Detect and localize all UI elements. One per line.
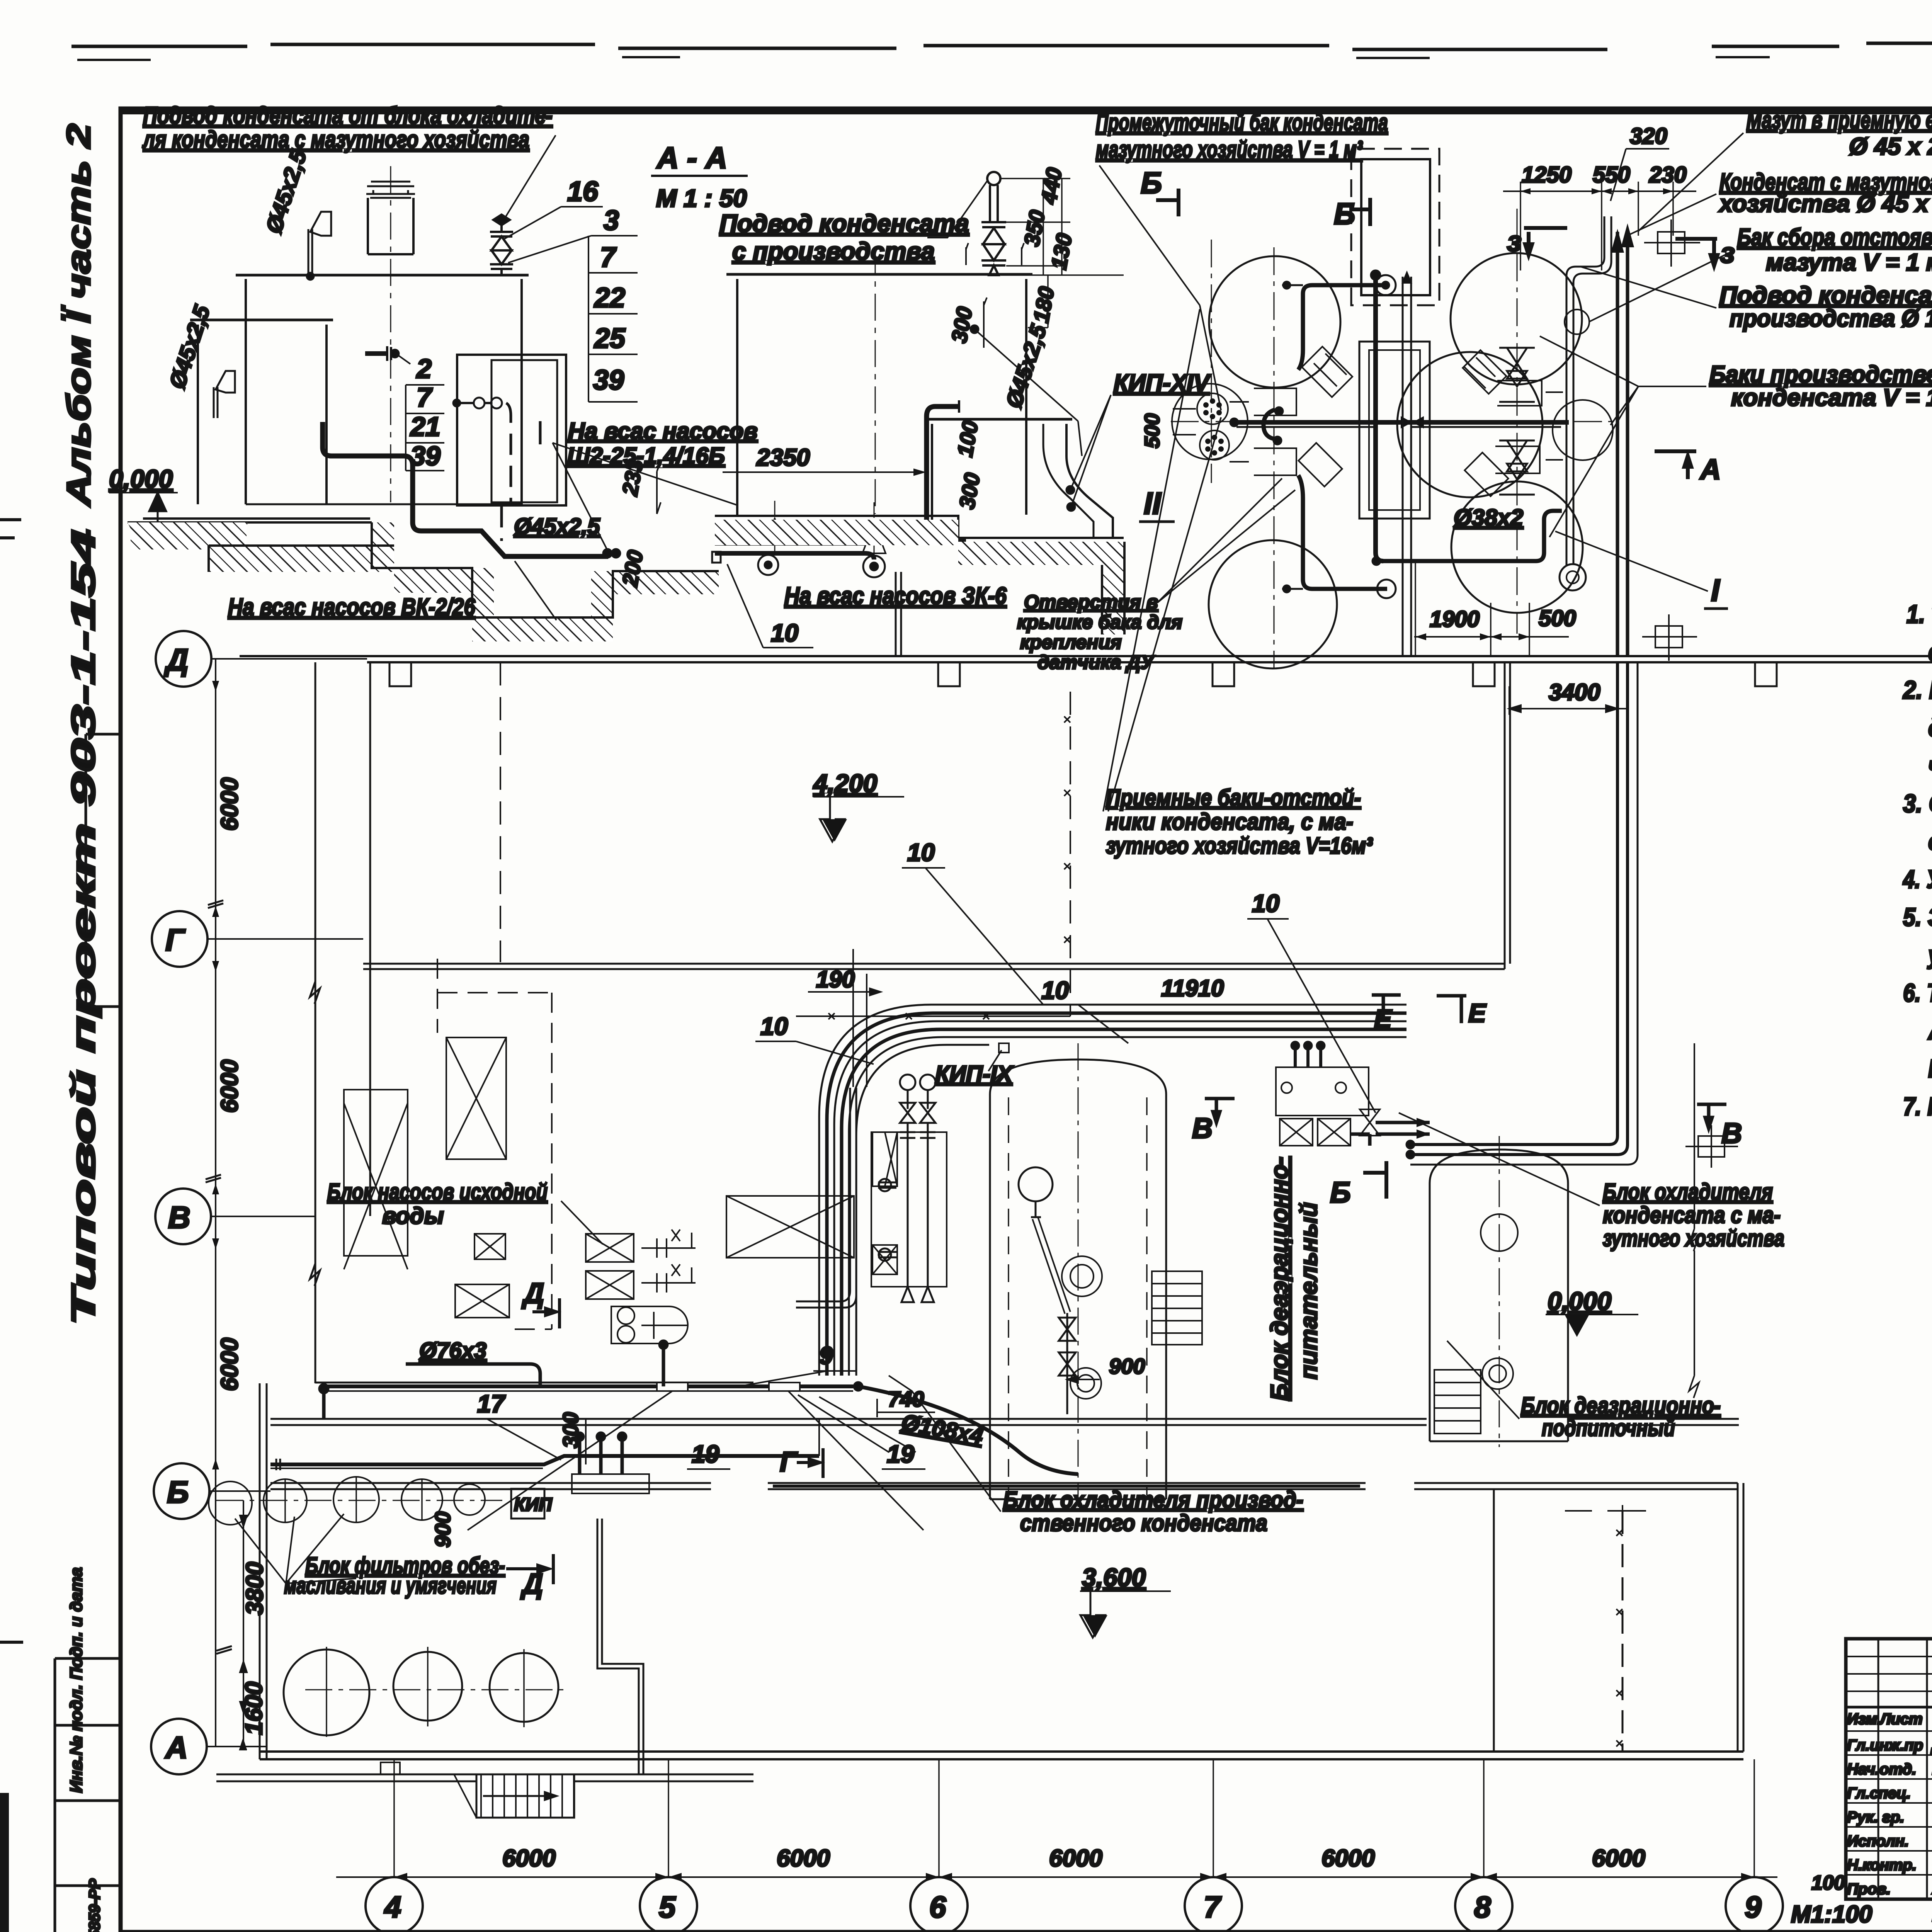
svg-text:Лист: Лист bbox=[1879, 1711, 1923, 1728]
svg-text:6000: 6000 bbox=[777, 1845, 830, 1872]
thick pipes around pump block bbox=[406, 1364, 540, 1386]
svg-text:ІІ: ІІ bbox=[1144, 486, 1162, 520]
svg-text:согласно ГОСТ 16037-70.: согласно ГОСТ 16037-70. bbox=[1928, 827, 1932, 855]
svg-text:масливания и умягчения: масливания и умягчения bbox=[284, 1573, 497, 1599]
trench pipes left of tank bbox=[715, 526, 893, 545]
svg-text:должно производиться пробн: должно производиться пробным давлением р… bbox=[1928, 713, 1932, 742]
svg-text:Д: Д bbox=[164, 643, 189, 677]
подпиточный deaerator tank bbox=[1430, 1150, 1568, 1183]
svg-text:10: 10 bbox=[1252, 889, 1279, 917]
svg-text:10: 10 bbox=[1041, 976, 1069, 1004]
svg-text:питательный: питательный bbox=[1296, 1202, 1322, 1379]
valves on vertical run right group bbox=[1499, 348, 1535, 495]
svg-text:6000: 6000 bbox=[1321, 1845, 1375, 1872]
svg-text:0,000: 0,000 bbox=[1548, 1287, 1611, 1315]
svg-text:Исполн.: Исполн. bbox=[1847, 1833, 1909, 1850]
svg-text:чего давления.: чего давления. bbox=[1928, 751, 1932, 780]
svg-text:мазутного хозяйства V = 1 м³: мазутного хозяйства V = 1 м³ bbox=[1096, 136, 1363, 163]
svg-text:550: 550 bbox=[1593, 162, 1630, 187]
instrument rack bbox=[871, 1132, 947, 1287]
svg-text:0,000: 0,000 bbox=[109, 464, 173, 493]
small left tank bbox=[190, 319, 333, 321]
big tank circles left group bbox=[1209, 256, 1340, 388]
dim lines right of valve bbox=[1001, 179, 1124, 275]
riser bundle to Б pipe bbox=[580, 1434, 622, 1474]
deaerator feed tank bbox=[990, 1060, 1166, 1094]
svg-text:5. Закладные конструкции д: 5. Закладные конструкции для установки п… bbox=[1903, 903, 1932, 931]
big tank A-A bbox=[236, 274, 529, 277]
svg-text:7: 7 bbox=[600, 242, 617, 273]
svg-text:1. Трубопроводы конденсата и: 1. Трубопроводы конденсата изготовить и … bbox=[1906, 600, 1932, 628]
svg-text:7: 7 bbox=[1204, 1890, 1222, 1924]
svg-text:3800: 3800 bbox=[241, 1562, 268, 1615]
svg-text:15859-РР: 15859-РР bbox=[86, 1879, 103, 1932]
svg-text:з: з bbox=[1507, 225, 1522, 257]
svg-text:Альбом Ї часть 2: Альбом Ї часть 2 bbox=[60, 124, 97, 507]
svg-text:4: 4 bbox=[384, 1890, 401, 1924]
svg-text:Промежуточный бак конденсата: Промежуточный бак конденсата bbox=[1096, 109, 1388, 136]
grid bubble В bbox=[155, 1189, 211, 1244]
svg-text:І: І bbox=[1711, 573, 1720, 607]
left margin stamp boxes bbox=[55, 1658, 121, 1932]
svg-text:Материал поз. 5; 35; 36 ; 37: Материал поз. 5; 35; 36 ; 37; 38 учтен д… bbox=[1928, 1054, 1932, 1083]
svg-text:В: В bbox=[168, 1200, 190, 1235]
pipe down from pump corner bbox=[662, 1341, 665, 1386]
svg-text:Блок насосов исходной: Блок насосов исходной bbox=[327, 1179, 548, 1205]
svg-text:4. Уклон трубопроводов выпол: 4. Уклон трубопроводов выполнить согласн… bbox=[1902, 865, 1932, 893]
svg-text:Е: Е bbox=[1468, 998, 1487, 1028]
Б row thick pipe 17 bbox=[270, 1456, 819, 1464]
svg-text:3: 3 bbox=[604, 205, 619, 236]
svg-text:Ø38х2: Ø38х2 bbox=[1454, 505, 1523, 531]
ground line and hatched ground bbox=[128, 519, 372, 522]
equipment X-boxes upper area bbox=[344, 1037, 854, 1318]
svg-text:39: 39 bbox=[593, 365, 624, 396]
S-bend pipe to right (Ø133) bbox=[1566, 216, 1604, 448]
grid bubble Д bbox=[156, 631, 211, 687]
svg-text:Нач.отд.: Нач.отд. bbox=[1847, 1761, 1916, 1778]
dashed pipe with x marks right bbox=[1622, 1511, 1624, 1752]
valve on middle tank roof bbox=[966, 172, 1024, 275]
svg-text:6000: 6000 bbox=[1592, 1845, 1645, 1872]
svg-text:А: А bbox=[1699, 453, 1721, 485]
bottom building walls bbox=[270, 1483, 1738, 1489]
SEC:TOPLEFT bbox=[109, 102, 758, 641]
SEC:BOTTOM bbox=[336, 1759, 1872, 1932]
svg-text:190: 190 bbox=[816, 966, 855, 992]
Ø108x4 curve to deaerator bbox=[854, 1382, 862, 1391]
vertical dim line between bubbles bbox=[215, 659, 216, 1747]
svg-text:6000: 6000 bbox=[502, 1845, 556, 1872]
diagonal damper squares bbox=[1298, 347, 1508, 496]
SEC:TITLEBLOCK bbox=[1811, 1639, 1932, 1928]
svg-text:ля конденсата с мазутного х: ля конденсата с мазутного хозяйства bbox=[142, 126, 529, 153]
svg-text:10: 10 bbox=[760, 1012, 788, 1040]
floor + hatch under middle tank bbox=[715, 516, 1124, 538]
filter circles row bbox=[216, 1500, 502, 1501]
unions on pipe 9 bbox=[657, 1383, 800, 1391]
svg-text:Блок деаэрационно-: Блок деаэрационно- bbox=[1266, 1156, 1293, 1401]
svg-text:крепления: крепления bbox=[1020, 631, 1122, 653]
middle big tank bbox=[726, 273, 1032, 276]
risers with direction flags bbox=[308, 229, 312, 275]
leader from label to valve 16 bbox=[502, 135, 556, 222]
svg-text:4,200: 4,200 bbox=[813, 769, 877, 798]
svg-text:производства Ø 133х4: производства Ø 133х4 bbox=[1730, 305, 1932, 332]
svg-text:Н.контр.: Н.контр. bbox=[1847, 1857, 1917, 1874]
filter room right wall with step bbox=[597, 1519, 643, 1774]
svg-text:Блок охладителя: Блок охладителя bbox=[1603, 1179, 1773, 1205]
big pipe loop right bbox=[1410, 663, 1617, 1145]
svg-text:5: 5 bbox=[659, 1890, 676, 1924]
left paper edge marks bbox=[2, 1793, 5, 1932]
tank box plan (dashed + solid) bbox=[1351, 149, 1439, 305]
svg-text:100: 100 bbox=[1811, 1872, 1845, 1894]
grid bubble Б bbox=[154, 1463, 209, 1519]
svg-text:Гл.спец.: Гл.спец. bbox=[1847, 1785, 1911, 1802]
pump block насосы исходной воды bbox=[586, 1230, 696, 1344]
svg-text:зутного хозяйства V=16м³: зутного хозяйства V=16м³ bbox=[1106, 833, 1373, 859]
dim line with arrows bbox=[336, 1876, 1777, 1878]
svg-text:10: 10 bbox=[907, 838, 935, 866]
thick main horizontal pipe bbox=[1234, 420, 1569, 425]
svg-text:9: 9 bbox=[819, 1342, 833, 1369]
svg-text:17: 17 bbox=[477, 1390, 506, 1418]
thick vertical pipe from tank box bbox=[1376, 275, 1383, 561]
svg-text:Подвод конденсата от блока ох: Подвод конденсата от блока охладите- bbox=[143, 102, 553, 129]
svg-text:Ø 45 х 2,5: Ø 45 х 2,5 bbox=[1849, 133, 1932, 160]
svg-text:3400: 3400 bbox=[1549, 679, 1600, 705]
svg-text:6. Трубопроводы Ду ≤ 100 про: 6. Трубопроводы Ду ≤ 100 прокладывать и … bbox=[1903, 978, 1932, 1007]
stairs bbox=[476, 1774, 574, 1818]
svg-text:Изм.: Изм. bbox=[1847, 1711, 1881, 1728]
row Д wall bbox=[240, 656, 1932, 662]
outer box bbox=[1846, 1639, 1932, 1899]
dashed outline pump room bbox=[437, 959, 552, 1329]
svg-text:7: 7 bbox=[417, 382, 433, 412]
svg-text:Мазут в приемную емкость: Мазут в приемную емкость bbox=[1747, 107, 1932, 134]
svg-text:3,600: 3,600 bbox=[1082, 1563, 1146, 1592]
svg-text:6000: 6000 bbox=[216, 777, 243, 831]
svg-text:22: 22 bbox=[594, 282, 625, 313]
svg-text:900: 900 bbox=[1109, 1354, 1145, 1378]
leader stack 2 7 21 39 bbox=[394, 352, 410, 364]
svg-text:Г: Г bbox=[780, 1447, 798, 1478]
SEC:NOTES bbox=[1902, 600, 1932, 1121]
svg-text:КИП: КИП bbox=[514, 1495, 553, 1515]
svg-text:320: 320 bbox=[1630, 124, 1667, 149]
trench outline bbox=[372, 522, 719, 617]
svg-text:Отверстия в: Отверстия в bbox=[1024, 591, 1158, 613]
svg-text:Пров.: Пров. bbox=[1847, 1881, 1891, 1898]
svg-text:6000: 6000 bbox=[216, 1338, 243, 1391]
svg-text:1600: 1600 bbox=[241, 1682, 267, 1735]
svg-text:11910: 11910 bbox=[1161, 975, 1224, 1001]
pipe bundle: vertical group bbox=[819, 1005, 1406, 1376]
svg-text:9: 9 bbox=[1745, 1890, 1762, 1924]
svg-text:Б: Б bbox=[1141, 166, 1162, 200]
SEC:TOPPLAN bbox=[1096, 107, 1932, 668]
svg-text:Гл.инж.пр: Гл.инж.пр bbox=[1847, 1737, 1923, 1754]
grid bubble Г bbox=[152, 911, 207, 967]
svg-text:25: 25 bbox=[594, 323, 626, 354]
svg-text:2350: 2350 bbox=[756, 444, 810, 471]
svg-text:7. Перечень изолируемых пове: 7. Перечень изолируемых поверхностей см.… bbox=[1903, 1092, 1932, 1121]
crosshair squares bbox=[1642, 219, 1700, 661]
svg-text:10: 10 bbox=[771, 619, 798, 647]
svg-text:конденсата с ма-: конденсата с ма- bbox=[1603, 1202, 1781, 1228]
svg-text:21: 21 bbox=[410, 412, 440, 442]
column stubs under Д wall bbox=[389, 662, 1777, 686]
svg-text:На всас насосов: На всас насосов bbox=[568, 418, 758, 444]
thick pipe into small tank bbox=[927, 406, 966, 541]
svg-text:3. Обработку кромок и свар: 3. Обработку кромок и сварку стыковых со… bbox=[1903, 789, 1932, 818]
trench edge below section bbox=[896, 572, 901, 657]
upper-left walls bbox=[315, 662, 370, 1383]
svg-text:2. Гидравлическое испытание: 2. Гидравлическое испытание трубопроводо… bbox=[1902, 675, 1932, 704]
thick hook pipes left group bbox=[1298, 285, 1387, 370]
svg-text:хозяйства Ø 45 х 2,5: хозяйства Ø 45 х 2,5 bbox=[1718, 190, 1932, 217]
shed valves top bbox=[474, 398, 485, 408]
svg-text:Бак сбора отстоявшегося: Бак сбора отстоявшегося bbox=[1737, 224, 1932, 251]
SEC:MIDSECTION bbox=[712, 166, 1295, 673]
svg-text:Блок деазрационно-: Блок деазрационно- bbox=[1521, 1393, 1721, 1418]
svg-text:Б: Б bbox=[167, 1475, 189, 1509]
dashed column lines bbox=[500, 662, 501, 962]
Ø76x3 pipe inner bbox=[796, 1088, 850, 1301]
break mark right bbox=[1689, 1229, 1699, 1398]
svg-text:ники конденсата, с ма-: ники конденсата, с ма- bbox=[1106, 809, 1353, 835]
small right tank with spout bbox=[925, 418, 1072, 421]
flanged connection circles bbox=[1172, 384, 1248, 459]
svg-text:1250: 1250 bbox=[1522, 162, 1571, 187]
svg-text:Блок охладителя производ-: Блок охладителя производ- bbox=[1003, 1487, 1303, 1513]
big tank circles right group bbox=[1451, 253, 1582, 384]
svg-text:Баки производственного: Баки производственного bbox=[1709, 361, 1932, 388]
svg-text:Арматуру располагать в мест: Арматуру располагать в местах , удобных … bbox=[1927, 1016, 1932, 1045]
svg-text:2: 2 bbox=[416, 354, 432, 384]
ground hatch polygons bbox=[128, 522, 247, 529]
crosshair square right bbox=[1698, 1136, 1725, 1157]
thick pair risers with arrows bbox=[1617, 232, 1628, 657]
svg-text:учтены в сводной спецификац: учтены в сводной спецификации материалов… bbox=[1927, 940, 1932, 969]
svg-text:Рук. гр.: Рук. гр. bbox=[1847, 1809, 1904, 1826]
grid bubbles 4..9 bbox=[366, 1877, 423, 1932]
svg-text:Д: Д bbox=[521, 1277, 544, 1309]
break marks on left wall bbox=[310, 981, 320, 1286]
two instrument risers with valves bbox=[879, 1075, 935, 1302]
svg-text:Б: Б bbox=[1334, 197, 1355, 231]
svg-text:Б: Б bbox=[1330, 1176, 1351, 1209]
thick floor pipes bbox=[323, 422, 608, 556]
heat exchanger block (охладитель конденсата с маз.хоз.) bbox=[1276, 1067, 1380, 1146]
svg-text:500: 500 bbox=[1141, 413, 1164, 448]
svg-text:Г: Г bbox=[165, 923, 186, 957]
svg-text:740: 740 bbox=[888, 1387, 924, 1411]
valve 16 on tank roof bbox=[490, 214, 513, 275]
SEC:PLAN bbox=[151, 309, 1932, 1818]
svg-text:16: 16 bbox=[567, 176, 599, 207]
svg-text:230: 230 bbox=[1649, 162, 1687, 187]
svg-text:6000: 6000 bbox=[1049, 1845, 1102, 1872]
svg-text:А - А: А - А bbox=[656, 141, 727, 175]
svg-text:с производства: с производства bbox=[732, 237, 935, 265]
shed building bbox=[457, 355, 566, 505]
walls below В bbox=[315, 1382, 753, 1384]
top torn paper dashed line bbox=[71, 42, 1932, 49]
svg-text:Типовой проект 903-1-154: Типовой проект 903-1-154 bbox=[65, 529, 102, 1325]
svg-text:М 1 : 50: М 1 : 50 bbox=[656, 184, 747, 212]
big tank circles bottom bbox=[305, 1689, 564, 1690]
300/900 dims near 17 jog bbox=[796, 1419, 819, 1456]
svg-text:конденсата V = 16 м³: конденсата V = 16 м³ bbox=[1731, 384, 1932, 411]
svg-text:В: В bbox=[1192, 1112, 1213, 1144]
svg-text:6000: 6000 bbox=[216, 1060, 243, 1113]
svg-text:6: 6 bbox=[929, 1890, 946, 1924]
svg-text:КИП-ХІV: КИП-ХІV bbox=[1114, 370, 1211, 396]
svg-text:Инв.№ подл. Подп. и дата: Инв.№ подл. Подп. и дата bbox=[67, 1567, 86, 1793]
svg-text:На всас насосов ВК-2/26: На всас насосов ВК-2/26 bbox=[228, 594, 475, 621]
svg-text:Подвод конденсата: Подвод конденсата bbox=[719, 209, 969, 237]
svg-text:8: 8 bbox=[1474, 1890, 1491, 1924]
svg-text:Ø45х2,5: Ø45х2,5 bbox=[514, 514, 600, 539]
grid bubble А bbox=[151, 1719, 207, 1774]
svg-text:ственного конденсата: ственного конденсата bbox=[1020, 1510, 1267, 1536]
svg-text:Ø76х3: Ø76х3 bbox=[419, 1338, 486, 1363]
left columns bbox=[1878, 1639, 1932, 1899]
svg-text:500: 500 bbox=[1539, 606, 1576, 631]
column extension lines bbox=[394, 1759, 1754, 1877]
svg-text:19: 19 bbox=[692, 1440, 719, 1468]
svg-text:мазута V = 1 м³: мазута V = 1 м³ bbox=[1766, 249, 1932, 276]
top small rows left part bbox=[1846, 1656, 1932, 1691]
svg-text:1900: 1900 bbox=[1430, 607, 1480, 632]
svg-text:Подвод конденсата с: Подвод конденсата с bbox=[1719, 282, 1932, 309]
foundation frame middle bbox=[1359, 342, 1430, 519]
name rows bbox=[1846, 1731, 1932, 1875]
flange stub on tank top bbox=[365, 351, 386, 356]
svg-text:А: А bbox=[165, 1730, 188, 1765]
svg-text:крышке бака для: крышке бака для bbox=[1017, 611, 1182, 633]
svg-text:Приемные баки-отстой-: Приемные баки-отстой- bbox=[1106, 785, 1361, 811]
pump flange rects bbox=[1230, 381, 1563, 475]
svg-text:М1:100: М1:100 bbox=[1791, 1901, 1872, 1928]
centerlines bbox=[1274, 209, 1517, 668]
КИП box bbox=[511, 1489, 544, 1519]
